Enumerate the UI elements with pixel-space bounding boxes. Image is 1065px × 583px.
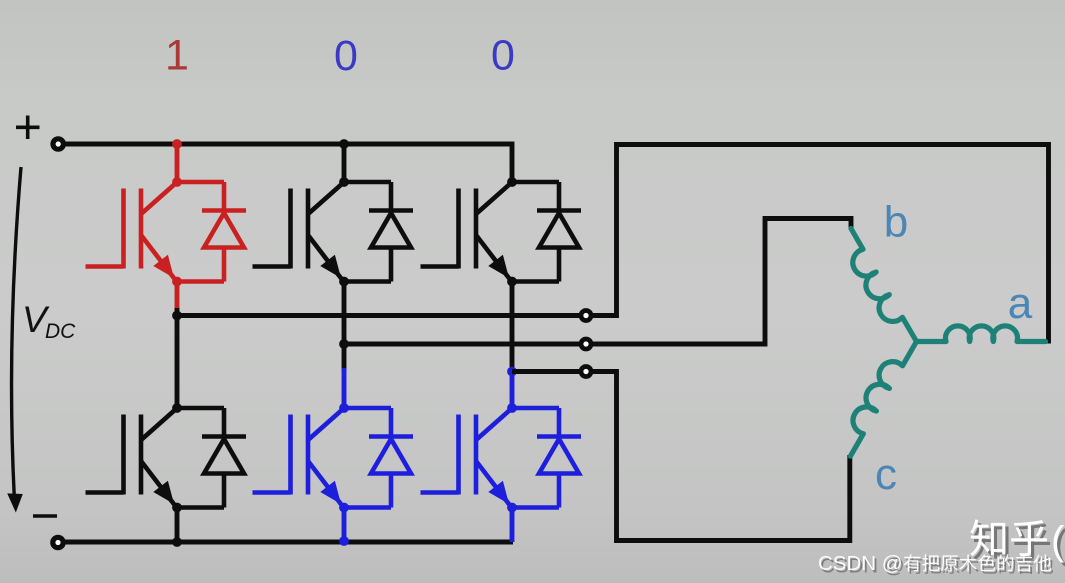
junction dot Q6 collector node (blue) (339, 403, 349, 413)
wire phase-a feeder (up and over to winding a) (593, 145, 1049, 344)
wire leg-a mid segment (black) (175, 308, 180, 408)
wire phase-b output bus (344, 342, 579, 347)
junction dot Q4 emitter node (172, 503, 182, 513)
junction dot Q2 collector node (blue) (507, 403, 517, 413)
node B output circle (581, 339, 591, 349)
transistor Q4 lower phase-a (OFF) (IGBT) (86, 409, 177, 506)
wire leg-b drop from DC+ rail (342, 144, 347, 182)
diode D1 (antiparallel freewheel) (177, 182, 246, 282)
diode D5 (antiparallel freewheel) (512, 182, 581, 282)
node C output circle (581, 367, 591, 377)
wire leg-b mid segment (blue) (342, 368, 347, 408)
wire Q6 emitter to DC- rail (blue) (342, 508, 347, 543)
Vdc reference arrow (curved, pointing down) (12, 167, 21, 495)
junction dot leg-a / DC- rail (172, 537, 182, 547)
junction dot phase-a output node (172, 311, 182, 321)
svg-text:1: 1 (165, 32, 189, 80)
DC+ terminal circle (53, 139, 63, 149)
minus sign label (-) (33, 514, 57, 518)
svg-text:a: a (1008, 279, 1033, 328)
transistor Q1 upper phase-a (ON) (IGBT) (86, 183, 177, 280)
wire leg-b mid segment (black) (342, 282, 347, 371)
junction dot leg-b / DC+ rail (339, 139, 349, 149)
junction dot Q5 collector node (507, 177, 517, 187)
node A output circle (581, 311, 591, 321)
junction dot phase-c output node (blue) (507, 367, 517, 377)
junction dot leg-a / DC+ rail (red) (172, 139, 182, 149)
wire Q1 emitter to phase-a output node (red part) (175, 282, 180, 311)
svg-text:c: c (875, 450, 897, 499)
diode D2 (antiparallel freewheel) (512, 408, 581, 508)
wire leg-a drop from DC+ rail (red) (175, 144, 180, 182)
wire DC+ rail (top bus) with corner into leg-c (63, 144, 512, 182)
junction dot leg-b / DC- rail (blue) (339, 536, 349, 546)
wire leg-c mid segment (black) (510, 282, 515, 372)
wire Q4 emitter to DC- rail (175, 508, 180, 543)
junction dot Q4 collector node (172, 403, 182, 413)
inductor winding c (phase c, teal) (850, 342, 916, 457)
svg-text:0: 0 (334, 32, 358, 80)
junction dot Q6 emitter node (blue) (339, 503, 349, 513)
plus sign label (+) (16, 116, 40, 140)
junction dot phase-b output node (339, 339, 349, 349)
svg-text:0: 0 (491, 32, 515, 80)
inductor winding b (phase b, teal) (851, 229, 917, 342)
wire phase-b feeder (over and up to winding b) (593, 219, 851, 345)
junction dot Q5 emitter node (507, 277, 517, 287)
DC- terminal circle (53, 537, 63, 547)
transistor Q5 upper phase-c (OFF) (IGBT) (421, 183, 512, 280)
transistor Q3 upper phase-b (OFF) (IGBT) (253, 183, 344, 280)
junction dot Q1 collector node (red) (172, 177, 182, 187)
svg-text:DC: DC (45, 320, 76, 343)
wire leg-c mid segment (blue) (510, 370, 515, 408)
diode D4 (antiparallel freewheel) (177, 408, 246, 508)
wire phase-c feeder (down and over to winding c) (593, 372, 850, 541)
transistor Q6 lower phase-b (ON) (IGBT) (253, 409, 344, 506)
wire phase-a output bus (177, 313, 579, 318)
diode D3 (antiparallel freewheel) (344, 182, 413, 282)
junction dot Q3 collector node (339, 177, 349, 187)
diode D6 (antiparallel freewheel) (344, 408, 413, 508)
inductor winding a (phase a, teal) (917, 326, 1046, 342)
junction dot Q2 emitter node (blue) (507, 503, 517, 513)
junction dot Q3 emitter node (339, 277, 349, 287)
junction dot Q1 emitter node (red) (172, 277, 182, 287)
wire Q2 emitter to DC- rail (blue) (510, 508, 515, 543)
svg-text:b: b (884, 198, 908, 247)
wire DC- rail (bottom bus) (63, 540, 514, 545)
wire phase-c output bus (512, 369, 579, 374)
transistor Q2 lower phase-c (ON) (IGBT) (421, 409, 512, 506)
